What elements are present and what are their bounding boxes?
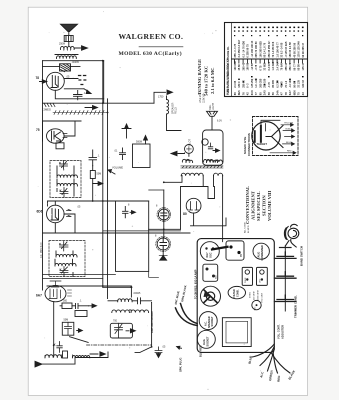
svg-text:250 90: 250 90 bbox=[242, 80, 245, 88]
rectifier frame bbox=[181, 187, 209, 230]
alignment socket label bbox=[203, 336, 210, 347]
pointer mark on 6A7 socket bbox=[212, 247, 228, 250]
osc coil D bbox=[131, 310, 149, 313]
svg-text:VOLUME VIII: VOLUME VIII bbox=[267, 190, 272, 221]
wire left bus vertical bbox=[42, 61, 44, 290]
wire x92.7 vertical bbox=[92, 166, 94, 201]
svg-text:180 85: 180 85 bbox=[247, 62, 250, 70]
IF1 primary coil bbox=[57, 175, 78, 178]
tube V1 plate wire bbox=[64, 79, 84, 89]
filter cond label bbox=[233, 289, 239, 298]
antenna coil primary bbox=[60, 46, 74, 49]
svg-text:135 250: 135 250 bbox=[251, 78, 254, 88]
svg-text:700: 700 bbox=[113, 320, 118, 323]
svg-text:-14 56: -14 56 bbox=[251, 63, 254, 71]
svg-text:56: 56 bbox=[271, 92, 275, 95]
speaker plug arrow bbox=[177, 346, 182, 349]
junction dot j bbox=[163, 181, 165, 183]
wire tube2 plate bbox=[64, 121, 81, 136]
tube V3 grid ticks bbox=[67, 209, 72, 216]
junction dot e bbox=[163, 228, 165, 230]
svg-text:VOL. CONT.: VOL. CONT. bbox=[277, 324, 281, 339]
svg-text:BAND SWITCH: BAND SWITCH bbox=[300, 246, 304, 266]
osc cap K bbox=[57, 342, 63, 353]
magic eye lead black bbox=[283, 129, 295, 132]
pilot winding bumps bbox=[186, 160, 193, 162]
AVC hatched line bbox=[53, 111, 108, 115]
svg-text:SOCKET: SOCKET bbox=[206, 336, 209, 347]
svg-text:1750: 1750 bbox=[158, 96, 164, 99]
svg-text:2.4 250 6.3 6A7: 2.4 250 6.3 6A7 bbox=[238, 39, 241, 57]
svg-text:33 6.3 -14 85: 33 6.3 -14 85 bbox=[281, 42, 284, 57]
magic eye lead yellow bbox=[281, 123, 294, 126]
svg-text:43: 43 bbox=[301, 92, 305, 95]
svg-text:TUBE PLATE SCREEN GRID CATHODE: TUBE PLATE SCREEN GRID CATHODE FIL bbox=[227, 46, 230, 95]
svg-text:265 70 180 80: 265 70 180 80 bbox=[255, 41, 258, 58]
antenna coupling unit bbox=[64, 36, 73, 42]
bottom right cable fan bbox=[252, 344, 290, 373]
ant label rotated bbox=[150, 311, 154, 333]
tube V4 label 6A7 bbox=[36, 294, 42, 298]
wire tuning cap row bbox=[43, 65, 81, 67]
magic eye lead red bbox=[270, 151, 296, 154]
wire B+ bus vertical 1 bbox=[102, 61, 104, 288]
svg-text:.00035: .00035 bbox=[72, 61, 80, 64]
svg-text:2 MEG: 2 MEG bbox=[250, 291, 252, 298]
arrow up near volume bbox=[122, 124, 131, 138]
svg-text:255 180: 255 180 bbox=[264, 78, 267, 88]
scanned page background bbox=[28, 7, 307, 395]
tube V2 grid ticks bbox=[63, 134, 67, 138]
dial light label bbox=[209, 102, 215, 110]
svg-text:95 58: 95 58 bbox=[298, 64, 301, 71]
socket 6A7 circle bbox=[200, 242, 219, 261]
tube V3 6D6 circle bbox=[47, 205, 65, 223]
left fan labels bbox=[174, 285, 188, 305]
tube V4 internals bbox=[49, 287, 61, 299]
wire y229 from rect loop bbox=[149, 228, 181, 230]
svg-text:0 -3: 0 -3 bbox=[247, 83, 250, 88]
svg-text:SECTION: SECTION bbox=[262, 195, 267, 216]
svg-text:-3 135 33 2A5: -3 135 33 2A5 bbox=[285, 41, 288, 57]
arrow up on volume block bbox=[144, 136, 148, 145]
wire rect corner down bbox=[149, 271, 159, 277]
svg-text:0 75: 0 75 bbox=[259, 65, 262, 70]
svg-text:SOCKET: SOCKET bbox=[211, 316, 214, 327]
speaker plug label bbox=[179, 358, 183, 373]
title underline rule bbox=[139, 46, 183, 48]
junction dot c bbox=[102, 200, 104, 202]
pilot lamp circle bbox=[185, 145, 194, 154]
tube V2 cathode resistor box bbox=[56, 143, 64, 149]
svg-text:OSC: OSC bbox=[210, 252, 213, 258]
ground at electrolytics bbox=[159, 255, 167, 260]
output arrow bbox=[213, 149, 220, 153]
svg-text:80: 80 bbox=[183, 212, 187, 216]
trimmer stack stem bbox=[284, 246, 286, 311]
svg-text:1.0 -14: 1.0 -14 bbox=[255, 79, 258, 87]
svg-text:MODEL 630 AC(Early): MODEL 630 AC(Early) bbox=[119, 50, 183, 57]
voltage table data entries bbox=[227, 27, 305, 96]
tube V1 internal electrodes bbox=[51, 76, 58, 88]
voltage table outer border bbox=[225, 23, 308, 97]
chassis outline bbox=[197, 239, 274, 353]
svg-text:33 135: 33 135 bbox=[298, 80, 301, 88]
osc padder circle bbox=[252, 300, 261, 310]
svg-text:ALIG: ALIG bbox=[258, 252, 261, 258]
osc resistor vertical bbox=[63, 351, 68, 358]
svg-text:76: 76 bbox=[241, 92, 245, 95]
antenna coil secondary bbox=[55, 55, 78, 59]
electrolytic cap B plates bbox=[160, 238, 167, 252]
band switch label bbox=[300, 246, 304, 266]
svg-text:100 33: 100 33 bbox=[302, 80, 305, 88]
svg-text:BLUE: BLUE bbox=[286, 142, 292, 144]
svg-text:90 77: 90 77 bbox=[293, 64, 296, 71]
subtitle MODEL 630 AC(Early) bbox=[119, 50, 183, 57]
IF1 secondary coil bbox=[57, 183, 78, 186]
output coil bumps bbox=[206, 160, 217, 162]
socket square A bbox=[242, 267, 252, 285]
resistor box 2 bbox=[75, 311, 87, 317]
title WALGREEN CO. bbox=[119, 32, 184, 41]
osc coil B bbox=[72, 356, 89, 358]
electrolytic cap A circle bbox=[158, 209, 169, 220]
output stage rounded box bbox=[203, 130, 223, 165]
electrolytic cap A plates bbox=[161, 208, 167, 222]
tuning shaft circle bbox=[201, 286, 221, 306]
svg-text:265 255: 265 255 bbox=[259, 78, 262, 88]
trimmer disc 2 bbox=[275, 272, 297, 278]
AVC arrow bbox=[85, 106, 98, 110]
svg-text:45 80: 45 80 bbox=[238, 64, 241, 71]
transformer core bbox=[181, 166, 223, 168]
svg-text:6.3V: 6.3V bbox=[217, 120, 222, 123]
svg-text:SPK. PLUG: SPK. PLUG bbox=[179, 358, 183, 373]
bias cap bars bbox=[76, 304, 79, 309]
wire right vertical of input frame bbox=[103, 61, 105, 103]
AVC arrow right of IF1 bbox=[93, 182, 103, 186]
magic eye tube internal electrodes bbox=[254, 120, 280, 143]
pilot jewel circle in box bbox=[202, 139, 208, 145]
svg-text:180 33 2.4 58: 180 33 2.4 58 bbox=[289, 42, 292, 58]
svg-text:-3 70: -3 70 bbox=[268, 81, 271, 87]
osc padder coil bbox=[118, 299, 133, 302]
svg-text:255 -3 -3 78: 255 -3 -3 78 bbox=[234, 43, 237, 57]
trimmer disc small top bbox=[280, 247, 292, 249]
magic eye lead green bbox=[285, 135, 295, 138]
svg-text:6.3 2.4: 6.3 2.4 bbox=[276, 80, 279, 88]
trimmer disc 3 bbox=[275, 295, 297, 301]
svg-text:265 42: 265 42 bbox=[242, 62, 245, 70]
IF456 label rotated bbox=[39, 241, 43, 258]
tuning range note line 2 bbox=[204, 66, 209, 96]
voltage table mid divider bbox=[232, 58, 308, 60]
bias resistor box 1 bbox=[62, 303, 72, 309]
tube V1 grid cap dots bbox=[79, 76, 86, 85]
svg-text:CONVENTIONAL: CONVENTIONAL bbox=[245, 186, 250, 224]
svg-text:70 1.0 95 6C6: 70 1.0 95 6C6 bbox=[272, 41, 275, 57]
junction dot a bbox=[102, 102, 104, 104]
svg-text:42: 42 bbox=[246, 92, 250, 95]
blue lead label top bbox=[199, 345, 203, 357]
IF1 wires bbox=[57, 166, 74, 196]
svg-text:50M: 50M bbox=[64, 319, 69, 322]
svg-text:100 265 0 6E5: 100 265 0 6E5 bbox=[259, 41, 262, 58]
det socket dots bbox=[229, 245, 243, 257]
svg-text:58: 58 bbox=[267, 92, 271, 95]
left cable fan curves bbox=[176, 304, 198, 326]
svg-text:45 45: 45 45 bbox=[281, 81, 284, 88]
trimmer conds label bbox=[293, 295, 297, 318]
svg-text:135 47: 135 47 bbox=[302, 62, 305, 70]
svg-text:-14 180 100 43: -14 180 100 43 bbox=[251, 40, 254, 57]
svg-text:400 OHM: 400 OHM bbox=[254, 291, 256, 300]
wire electrolytic drop bbox=[162, 190, 165, 255]
svg-text:2.1 to 6.4 MC: 2.1 to 6.4 MC bbox=[210, 68, 215, 94]
svg-text:WALGREEN CO.: WALGREEN CO. bbox=[119, 32, 184, 41]
tube V2 oval bbox=[47, 129, 65, 143]
alignment socket circle bbox=[197, 330, 215, 348]
wire rect filter loop bbox=[116, 201, 149, 271]
svg-text:540 to 1720 KC: 540 to 1720 KC bbox=[204, 66, 209, 96]
electrolytic cap A dashed ring bbox=[157, 208, 171, 222]
resistor 2MEG hatched bbox=[44, 103, 55, 107]
transformer bottom winding B1 bbox=[181, 173, 203, 176]
magic eye target wedge bbox=[266, 126, 283, 148]
magic eye dashed enclosure bbox=[253, 117, 299, 156]
screen bypass capacitor bbox=[74, 91, 83, 100]
tube V4 grid ticks bbox=[68, 290, 72, 296]
rectifier tube 80 circle bbox=[186, 198, 201, 213]
IF2 trimmer cap top bbox=[60, 242, 69, 252]
svg-text:BLK-RED: BLK-RED bbox=[199, 345, 203, 357]
junction dot bottom bbox=[151, 346, 153, 348]
junction dot g bbox=[102, 285, 104, 287]
wire bottom bus of RF frame bbox=[43, 102, 155, 104]
svg-text:90 90 265 47: 90 90 265 47 bbox=[302, 42, 305, 57]
magic eye lead labels bbox=[284, 123, 294, 153]
line voltage small note bbox=[199, 90, 206, 103]
bottom cap with down arrow bbox=[155, 347, 162, 358]
wire under coils bbox=[45, 355, 72, 358]
svg-text:TUNING RANGE: TUNING RANGE bbox=[197, 59, 202, 95]
tuning range note line 1 bbox=[197, 59, 202, 95]
wire heater bottom bbox=[103, 230, 181, 232]
svg-text:0 255 90 75: 0 255 90 75 bbox=[247, 44, 250, 58]
wire bus crossing horizontal y233 bbox=[43, 232, 191, 234]
coupling cap row2 bbox=[120, 148, 126, 160]
wire bias row bbox=[60, 305, 89, 307]
svg-text:75: 75 bbox=[297, 92, 301, 95]
rectifier cathode wires bbox=[191, 187, 227, 226]
pilot label bbox=[188, 139, 191, 146]
IF2 primary coil bbox=[56, 254, 77, 257]
svg-text:95 265: 95 265 bbox=[272, 80, 275, 88]
transformer bottom winding B2 bbox=[214, 173, 223, 176]
svg-text:70 1.0: 70 1.0 bbox=[285, 80, 288, 88]
speaker plug label bbox=[204, 316, 214, 328]
svg-text:2.4 95: 2.4 95 bbox=[234, 80, 237, 88]
transformer top coils row A bbox=[182, 159, 222, 162]
svg-text:.00025: .00025 bbox=[133, 292, 141, 295]
tuning arrow at antenna coil bbox=[75, 46, 88, 50]
wire top feed with arrow bbox=[154, 90, 173, 103]
wire V3 bottom bbox=[55, 214, 75, 233]
tuning shaft knob bbox=[204, 290, 218, 303]
power transformer square bbox=[222, 318, 251, 347]
wire padder row bbox=[108, 300, 118, 302]
svg-text:CONNECTIONS: CONNECTIONS bbox=[247, 133, 251, 156]
svg-text:50M: 50M bbox=[97, 173, 102, 176]
svg-text:RED: RED bbox=[287, 151, 292, 153]
bias arrow right bbox=[89, 304, 97, 308]
IF1 trimmer cap K bottom bbox=[60, 188, 68, 198]
plate decoupling arrow bbox=[84, 89, 91, 94]
svg-text:OSC: OSC bbox=[260, 278, 262, 283]
svg-text:250 76: 250 76 bbox=[289, 62, 292, 70]
alig condenser label bbox=[258, 245, 265, 261]
svg-text:10000 OHM: 10000 OHM bbox=[258, 290, 260, 301]
tuning gang dash link bbox=[87, 344, 152, 346]
svg-text:VOLUME: VOLUME bbox=[112, 166, 123, 170]
speaker field coil vertical bbox=[167, 100, 169, 114]
magic eye label bbox=[243, 133, 251, 156]
svg-text:85: 85 bbox=[258, 92, 262, 95]
filter cond oval bbox=[228, 286, 245, 298]
svg-text:77: 77 bbox=[254, 92, 258, 95]
IF2 wires bbox=[55, 251, 73, 277]
svg-text:6A7: 6A7 bbox=[205, 252, 209, 258]
svg-text:-3 78: -3 78 bbox=[255, 64, 258, 70]
svg-text:6A7: 6A7 bbox=[36, 294, 42, 298]
bottom step wire bbox=[75, 352, 108, 364]
svg-text:YELLOW: YELLOW bbox=[284, 123, 294, 125]
magic eye base label band bbox=[257, 142, 268, 146]
magic eye lead blue bbox=[283, 142, 295, 145]
rectifier label 80 bbox=[183, 212, 187, 216]
wire osc junction bbox=[103, 287, 132, 310]
osc trimmer box bbox=[110, 323, 132, 338]
IF2 secondary coil bbox=[55, 263, 76, 266]
IF2 trimmer cap bottom bbox=[60, 267, 68, 277]
svg-text:95 2.4 1.0 76: 95 2.4 1.0 76 bbox=[264, 42, 267, 57]
dial light lamp symbol bbox=[207, 111, 218, 116]
svg-text:45 95 250 56: 45 95 250 56 bbox=[293, 42, 296, 57]
svg-text:LIGHT: LIGHT bbox=[212, 102, 215, 110]
svg-text:24A: 24A bbox=[275, 90, 279, 95]
svg-text:6A7: 6A7 bbox=[288, 90, 292, 95]
socket square B bbox=[257, 267, 268, 285]
electrolytic cap B circle bbox=[157, 238, 169, 250]
tube V3 label 6D6 bbox=[37, 210, 43, 214]
alig condenser rounded rect bbox=[253, 243, 269, 259]
ground arrow far left bbox=[35, 361, 75, 367]
osc trimmer arrow bbox=[126, 329, 135, 333]
svg-text:6D6: 6D6 bbox=[292, 90, 296, 95]
wire osc right vertical bbox=[151, 303, 153, 347]
IF2 shield can dashed box bbox=[49, 241, 85, 277]
svg-text:78: 78 bbox=[284, 92, 288, 95]
svg-text:TARGET: TARGET bbox=[257, 142, 268, 146]
junction dot f bbox=[92, 200, 94, 202]
svg-text:47: 47 bbox=[280, 92, 284, 95]
svg-text:80: 80 bbox=[233, 92, 237, 95]
svg-text:250M: 250M bbox=[59, 43, 65, 46]
bottom fan labels bbox=[248, 355, 297, 382]
volume label bbox=[112, 166, 123, 170]
svg-text:ALL COND.: ALL COND. bbox=[244, 221, 247, 233]
svg-text:6.3 -14 70 6D6: 6.3 -14 70 6D6 bbox=[242, 40, 245, 57]
tube V2 internal bbox=[52, 131, 61, 141]
wire coupling to coil bbox=[68, 42, 70, 46]
tube V1 grid arrow bbox=[40, 80, 47, 84]
svg-text:ALIG: ALIG bbox=[203, 339, 206, 345]
vol cont adjuster label bbox=[277, 324, 285, 339]
svg-text:RED: RED bbox=[277, 375, 282, 382]
svg-text:ALIGNMENT: ALIGNMENT bbox=[251, 191, 256, 220]
wire V3 top frame bbox=[48, 201, 149, 206]
socket 6A7 inner marks bbox=[205, 247, 214, 258]
socket plate dots bbox=[206, 268, 218, 280]
IF1 shield can dashed box bbox=[50, 161, 81, 198]
svg-text:TRIMMER COND.: TRIMMER COND. bbox=[293, 295, 297, 318]
svg-text:1.0 2A5: 1.0 2A5 bbox=[272, 61, 275, 70]
tube V1 78 circle bbox=[46, 72, 64, 90]
osc coil C bbox=[112, 310, 130, 313]
diagonal to cap bbox=[135, 347, 152, 353]
svg-text:255 43: 255 43 bbox=[285, 62, 288, 70]
svg-text:135 0 135 24A: 135 0 135 24A bbox=[298, 41, 301, 58]
voltage table header rotated labels bbox=[227, 57, 230, 95]
osc grid box with cap bbox=[62, 322, 74, 335]
svg-text:1.0 100 45 77: 1.0 100 45 77 bbox=[276, 42, 279, 58]
chassis edge lead label bbox=[195, 269, 198, 299]
trim labels mid bbox=[250, 290, 264, 303]
svg-text:COND.: COND. bbox=[237, 289, 240, 297]
svg-text:SEE SPECIAL: SEE SPECIAL bbox=[256, 191, 261, 221]
wire y286 bbox=[47, 285, 131, 287]
condenser note tiny bbox=[244, 221, 250, 233]
svg-text:TO 3M RES. 6X3-1A AMP: TO 3M RES. 6X3-1A AMP bbox=[195, 269, 198, 299]
pilot arrow left bbox=[171, 151, 189, 156]
svg-text:250 45 255 42: 250 45 255 42 bbox=[268, 41, 271, 58]
speaker field label bbox=[172, 102, 178, 114]
trimmer disc 1 bbox=[275, 252, 297, 258]
socket plate square bbox=[203, 264, 218, 281]
speaker plug circle bbox=[199, 312, 217, 330]
svg-text:500M: 500M bbox=[136, 141, 142, 144]
osc coil A bbox=[45, 355, 62, 358]
wire y274 stubs bbox=[43, 275, 116, 279]
magic eye tube circle bbox=[252, 122, 280, 150]
antenna horn bbox=[61, 24, 78, 31]
band switch wire knot bbox=[284, 224, 298, 247]
junction dot h bbox=[53, 344, 55, 346]
osc grid arrow bbox=[77, 329, 83, 333]
svg-text:70 6A7: 70 6A7 bbox=[281, 62, 284, 71]
tube V4 6A7 ellipse bbox=[45, 285, 66, 301]
tuning range note line 3 bbox=[210, 68, 215, 94]
svg-text:BLACK: BLACK bbox=[286, 127, 294, 130]
rectifier internals bbox=[189, 202, 199, 211]
svg-text:I.F. 456 K.C.: I.F. 456 K.C. bbox=[39, 241, 43, 258]
wire y190 to caps bbox=[149, 189, 164, 191]
junction dot i bbox=[102, 60, 104, 62]
osc arrow right bbox=[90, 352, 105, 356]
svg-text:TUNE: TUNE bbox=[245, 277, 247, 283]
svg-text:CONDENSER: CONDENSER bbox=[261, 245, 264, 261]
